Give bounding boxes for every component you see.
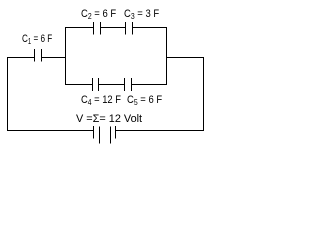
- wire: top branch right segment: [133, 27, 168, 29]
- wire: bottom branch middle segment: [99, 84, 126, 86]
- wire: bottom branch left segment: [65, 84, 93, 86]
- wire: C1 left lead: [7, 57, 34, 59]
- battery V plate short right: [115, 126, 117, 139]
- battery V plate tall inner-right: [110, 127, 112, 144]
- capacitor C4: [93, 78, 99, 91]
- label V battery value: [76, 114, 142, 125]
- wire: right bus vertical: [166, 27, 168, 85]
- capacitor C2: [94, 22, 101, 35]
- capacitor C3: [126, 22, 133, 35]
- battery V plate short left: [93, 126, 95, 139]
- wire: left bus vertical: [65, 27, 67, 85]
- battery V plate tall inner-left: [99, 127, 101, 144]
- label C3 value: [124, 9, 159, 21]
- wire: middle right horizontal to right bus: [166, 57, 204, 59]
- wire: top branch left segment: [65, 27, 94, 29]
- wire: battery to bottom right: [116, 130, 205, 132]
- wire: left outer vertical: [7, 57, 9, 131]
- wire: bottom branch right segment: [132, 84, 168, 86]
- wire: bottom left to battery: [7, 130, 94, 132]
- capacitor C1: [35, 49, 42, 62]
- label C4 value: [81, 95, 121, 107]
- wire: C1 right lead to left bus: [42, 57, 66, 59]
- wire: right outer vertical: [203, 57, 205, 131]
- wire: top branch middle segment: [101, 27, 126, 29]
- label C5 value: [127, 95, 162, 107]
- capacitor C5: [125, 78, 132, 91]
- label C1 value: [22, 34, 52, 46]
- label C2 value: [81, 9, 116, 21]
